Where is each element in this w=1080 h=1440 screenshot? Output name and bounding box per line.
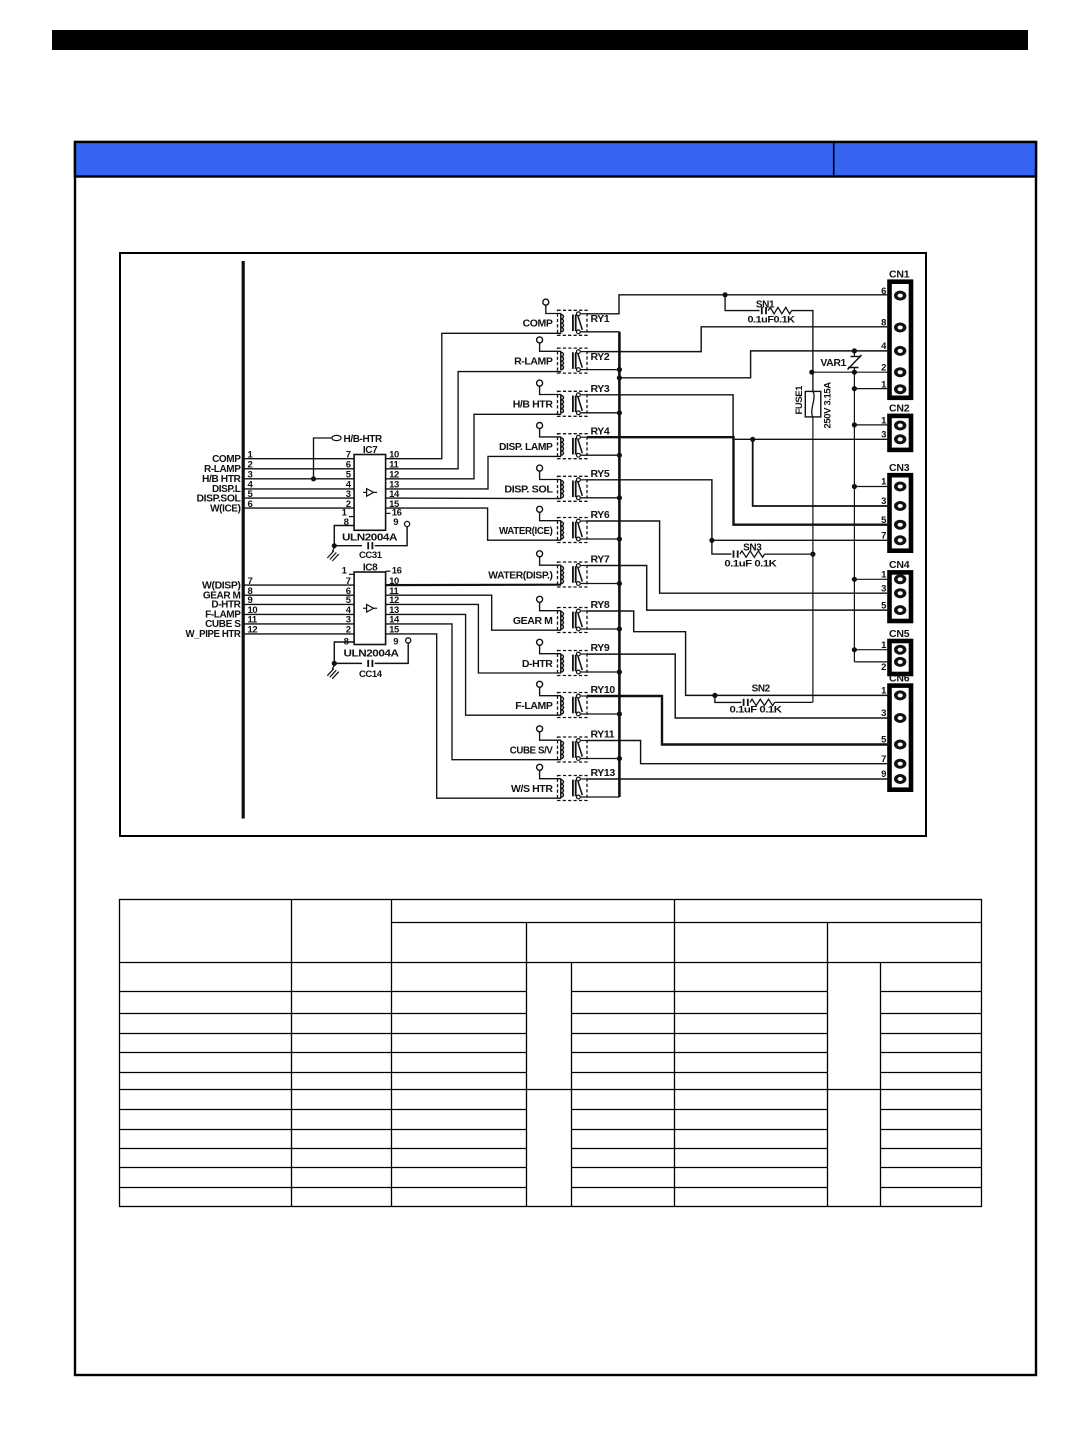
svg-text:CUBE S/V: CUBE S/V — [510, 744, 553, 756]
svg-text:ULN2004A: ULN2004A — [342, 531, 398, 543]
svg-text:DISP. LAMP: DISP. LAMP — [499, 441, 553, 453]
svg-text:FUSE1: FUSE1 — [794, 385, 805, 415]
svg-text:COMP: COMP — [523, 318, 553, 330]
svg-text:CN5: CN5 — [889, 628, 910, 640]
svg-text:RY11: RY11 — [591, 729, 615, 741]
svg-text:H/B HTR: H/B HTR — [513, 399, 554, 411]
svg-text:RY8: RY8 — [591, 599, 610, 611]
svg-text:6: 6 — [248, 499, 253, 510]
svg-text:ULN2004A: ULN2004A — [344, 648, 400, 660]
svg-text:0.1uF 0.1K: 0.1uF 0.1K — [730, 704, 783, 715]
svg-text:RY7: RY7 — [591, 554, 610, 566]
svg-text:9: 9 — [393, 517, 398, 528]
svg-text:0.1uF 0.1K: 0.1uF 0.1K — [724, 559, 777, 570]
svg-text:0.1uF0.1K: 0.1uF0.1K — [748, 315, 796, 326]
svg-text:W/S HTR: W/S HTR — [511, 783, 553, 795]
svg-text:CC31: CC31 — [359, 550, 383, 561]
svg-text:W_PIPE HTR: W_PIPE HTR — [186, 629, 242, 640]
svg-text:WATER(ICE): WATER(ICE) — [499, 525, 553, 537]
svg-text:W(ICE): W(ICE) — [210, 503, 240, 514]
svg-text:VAR1: VAR1 — [820, 357, 846, 369]
svg-text:CN3: CN3 — [889, 462, 910, 474]
svg-text:WATER(DISP.): WATER(DISP.) — [488, 569, 552, 581]
svg-text:D-HTR: D-HTR — [522, 658, 553, 670]
svg-text:DISP. SOL: DISP. SOL — [504, 484, 553, 496]
svg-text:IC8: IC8 — [363, 563, 378, 574]
svg-text:CN2: CN2 — [889, 403, 910, 415]
svg-text:250V 3.15A: 250V 3.15A — [822, 382, 833, 429]
svg-text:16: 16 — [392, 565, 402, 576]
svg-text:F-LAMP: F-LAMP — [515, 700, 553, 712]
svg-text:RY13: RY13 — [591, 767, 616, 779]
svg-text:RY4: RY4 — [591, 425, 610, 437]
svg-text:SN1: SN1 — [756, 299, 775, 310]
svg-text:CC14: CC14 — [359, 669, 383, 680]
svg-text:RY3: RY3 — [591, 383, 610, 395]
svg-text:SN3: SN3 — [743, 543, 762, 554]
svg-text:2: 2 — [346, 625, 351, 636]
svg-text:R-LAMP: R-LAMP — [514, 355, 553, 367]
svg-text:12: 12 — [248, 625, 258, 636]
svg-text:8: 8 — [344, 517, 349, 528]
svg-text:RY6: RY6 — [591, 509, 610, 521]
svg-text:CN6: CN6 — [889, 672, 910, 684]
svg-text:GEAR M: GEAR M — [513, 615, 553, 627]
svg-text:CN4: CN4 — [889, 559, 910, 571]
svg-text:SN2: SN2 — [752, 683, 771, 694]
svg-text:RY10: RY10 — [591, 684, 616, 696]
svg-text:RY5: RY5 — [591, 468, 610, 480]
svg-text:9: 9 — [393, 636, 398, 647]
svg-text:RY1: RY1 — [591, 313, 610, 325]
svg-text:H/B-HTR: H/B-HTR — [344, 434, 383, 445]
svg-text:IC7: IC7 — [363, 445, 378, 456]
svg-text:RY9: RY9 — [591, 642, 610, 654]
svg-text:2: 2 — [881, 662, 886, 673]
svg-text:CN1: CN1 — [889, 269, 910, 281]
svg-text:RY2: RY2 — [591, 351, 610, 363]
